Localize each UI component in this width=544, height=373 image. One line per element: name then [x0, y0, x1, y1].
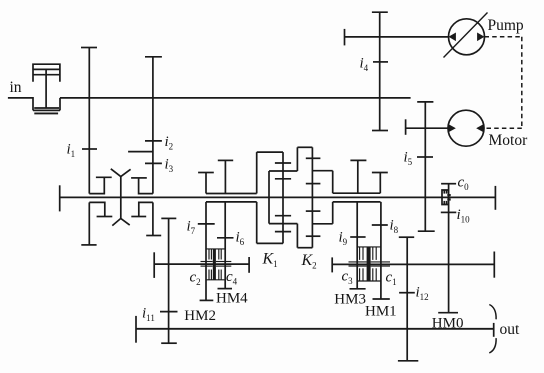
clutch K1 bottom edge: [257, 242, 283, 244]
wire hollow stub lower-left: [206, 201, 257, 203]
clutch c0 bracket: [442, 190, 451, 205]
gear K2 ticks: [306, 158, 321, 236]
planetary carrier Y upper arms: [111, 169, 131, 177]
svg-text:i7: i7: [187, 219, 196, 237]
svg-text:i11: i11: [142, 306, 155, 324]
pump circle: [449, 19, 485, 55]
wire input shaft left: [8, 98, 33, 111]
svg-text:Pump: Pump: [488, 17, 524, 34]
svg-text:HM3: HM3: [334, 292, 366, 308]
gear pair left-upper B bar: [218, 160, 233, 193]
shaft i4 vertical: [372, 12, 388, 130]
svg-text:K1: K1: [262, 251, 278, 270]
clutch HM1 drum right wall: [373, 202, 390, 299]
svg-text:c1: c1: [386, 270, 397, 288]
planetary upper-right ring bracket: [139, 178, 153, 194]
gear pair right-upper A bar: [350, 160, 366, 193]
svg-text:HM1: HM1: [365, 303, 397, 319]
clutch K1 outer wall: [256, 152, 258, 243]
motor triangle right: [476, 124, 484, 132]
wire motor line: [406, 119, 448, 135]
planetary lower-left planet bar: [97, 216, 113, 218]
gear K1 ticks: [275, 163, 291, 232]
clutch HM3 drum left wall: [350, 202, 366, 289]
shaft i2i3 vertical: [145, 57, 162, 194]
clutch K1 inner wall: [268, 171, 270, 224]
shaft clutch row right: [332, 252, 494, 278]
gear i11 tick: [160, 311, 178, 313]
svg-text:i1: i1: [67, 142, 76, 160]
clutch K1 step lower: [269, 223, 297, 225]
shaft clutch row left: [154, 252, 249, 278]
clutch K1 hub shaft: [282, 152, 284, 243]
svg-text:in: in: [10, 79, 22, 96]
gear i4 tick: [373, 61, 388, 63]
gear i7 tick: [198, 223, 215, 225]
shaft i1 vertical: [81, 48, 97, 194]
shaft i2i3 lower section: [146, 202, 161, 235]
clutch K1 step upper: [269, 170, 297, 172]
clutch HM4 drum right wall: [218, 202, 233, 289]
shaft i1 lower section: [81, 202, 96, 245]
output flange lower hook: [489, 338, 496, 353]
gear i5 tick: [417, 156, 433, 158]
svg-text:c2: c2: [190, 270, 201, 288]
shaft main second row: [60, 185, 496, 211]
output flange tick: [493, 323, 495, 337]
svg-text:i8: i8: [390, 218, 399, 236]
planetary upper-right planet bar: [131, 177, 147, 179]
clutch K2 step lower-right: [312, 223, 332, 225]
pump variable diagonal: [444, 13, 488, 58]
shaft i12 vertical: [398, 237, 418, 361]
gear i1 tick: [82, 148, 97, 150]
planetary upper-left ring bracket: [89, 177, 104, 193]
pump triangle right: [477, 33, 484, 42]
planetary carrier Y lower arms: [112, 218, 129, 225]
svg-text:i4: i4: [360, 56, 369, 74]
output flange upper hook: [489, 305, 496, 320]
gear i12 tick: [399, 292, 415, 294]
wire hollow stub upper-right: [333, 192, 381, 194]
gear i3 tick: [145, 162, 162, 164]
motor triangle left: [448, 124, 456, 132]
wire pump line: [345, 29, 449, 46]
svg-text:c4: c4: [226, 269, 238, 287]
gear i9 tick: [350, 236, 365, 238]
shaft output row: [136, 316, 494, 343]
clutch K2 step upper-right: [312, 170, 332, 172]
clutch K2 bottom edge: [297, 247, 312, 249]
svg-text:HM4: HM4: [216, 291, 248, 307]
svg-text:c3: c3: [342, 269, 354, 287]
clutch K2 right wall: [332, 171, 334, 224]
svg-text:i12: i12: [416, 285, 429, 303]
wire hollow stub upper-left: [206, 193, 257, 195]
planetary lower-right ring bracket: [139, 202, 153, 216]
clutch c0 top bar: [441, 183, 456, 185]
clutch K1 top edge: [257, 151, 283, 153]
shaft i10 HM0 vertical: [438, 184, 458, 313]
svg-text:i6: i6: [236, 230, 245, 248]
gear ring link bar: [128, 151, 153, 153]
shaft i5 vertical: [417, 102, 435, 231]
shaft i11 vertical: [161, 218, 177, 343]
svg-text:Motor: Motor: [489, 132, 529, 149]
clutch pack HM4: [201, 249, 232, 280]
clutch pack HM3 HM1: [349, 247, 391, 281]
gear i6 tick: [217, 237, 234, 239]
planetary carrier pin: [120, 177, 122, 219]
clutch HM4 drum left wall: [200, 202, 214, 301]
motor circle: [448, 110, 484, 146]
svg-text:K2: K2: [301, 252, 317, 271]
planetary upper-left planet bar: [96, 176, 112, 178]
svg-text:i2: i2: [165, 134, 174, 152]
svg-text:HM2: HM2: [184, 308, 216, 324]
clutch K2 top edge: [297, 146, 312, 148]
wire input shaft main: [60, 97, 411, 99]
wire dashed pump to motor: [484, 37, 522, 128]
clutch K2 left wall: [296, 147, 298, 247]
planetary lower-left ring bracket: [89, 202, 105, 216]
pump triangle left: [449, 33, 456, 42]
coupling input damper: [33, 64, 60, 113]
planetary lower-right planet bar: [131, 216, 146, 218]
svg-text:i5: i5: [404, 150, 413, 168]
svg-text:out: out: [500, 321, 521, 338]
gear i8 tick: [372, 224, 388, 226]
clutch K2 hub shaft: [311, 147, 313, 247]
gear i10 tick: [441, 211, 457, 213]
svg-text:i3: i3: [165, 157, 174, 175]
wire hollow stub lower-right: [333, 201, 381, 203]
svg-text:c0: c0: [458, 175, 470, 193]
svg-text:i9: i9: [339, 230, 348, 248]
svg-text:i10: i10: [457, 207, 471, 225]
gear pair left-upper A bar: [198, 173, 214, 194]
gear pair right-upper B bar: [372, 173, 388, 194]
gear i2 tick: [145, 140, 162, 142]
